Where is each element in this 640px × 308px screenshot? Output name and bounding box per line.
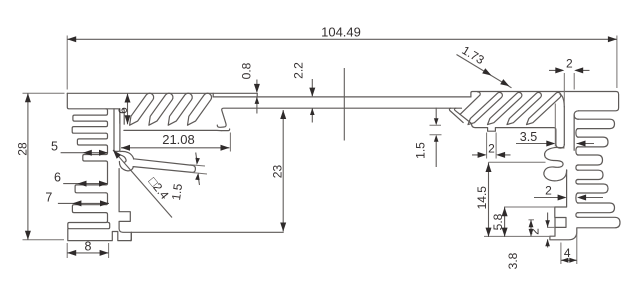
- svg-text:1.5: 1.5: [169, 182, 185, 201]
- svg-text:3.8: 3.8: [506, 252, 520, 269]
- svg-text:6: 6: [116, 107, 130, 114]
- svg-text:4: 4: [564, 246, 571, 260]
- svg-text:2: 2: [528, 228, 542, 235]
- svg-text:1.5: 1.5: [414, 142, 428, 159]
- svg-text:2.2: 2.2: [292, 62, 306, 79]
- svg-text:3.5: 3.5: [520, 130, 537, 144]
- svg-text:28: 28: [16, 142, 30, 156]
- svg-text:2: 2: [566, 57, 573, 71]
- svg-text:5.8: 5.8: [491, 213, 505, 230]
- svg-text:14.5: 14.5: [475, 186, 489, 210]
- svg-text:23: 23: [271, 165, 285, 179]
- svg-text:7: 7: [45, 191, 52, 205]
- svg-text:104.49: 104.49: [321, 25, 361, 40]
- svg-text:2: 2: [488, 141, 495, 155]
- svg-text:2: 2: [545, 184, 552, 198]
- svg-text:21.08: 21.08: [162, 132, 195, 147]
- svg-text:6: 6: [54, 171, 61, 185]
- svg-text:8: 8: [85, 240, 92, 254]
- svg-text:5: 5: [51, 140, 58, 154]
- svg-text:0.8: 0.8: [240, 62, 254, 79]
